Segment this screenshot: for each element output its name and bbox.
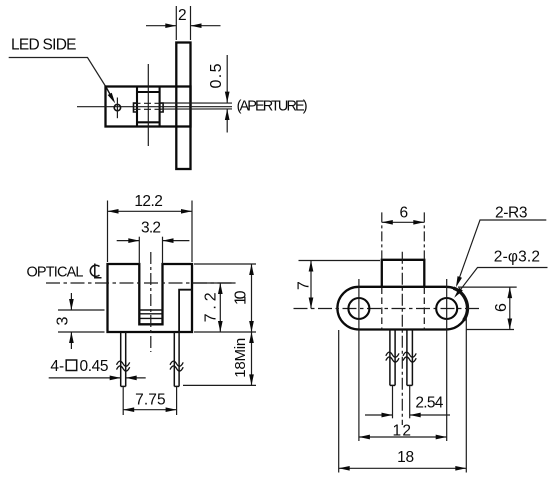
aperture side bracket left [134,103,138,112]
dimension 10 line [251,264,253,332]
svg-text:(APERTURE): (APERTURE) [237,99,308,115]
slot centerline [150,252,152,352]
svg-text:2-R3: 2-R3 [495,205,528,222]
dimension 18Min line [251,332,253,385]
6-dim extension lines above tower [382,212,425,259]
centre-line symbol [90,264,101,278]
base top/bottom extension right [458,287,517,329]
leader arrow into body [106,87,117,105]
lead centerlines below tips right view [393,385,410,418]
break mark right lead [403,352,416,362]
dimension 7 line [310,261,312,309]
dimension 0.5 line lower [226,109,228,133]
body top/bottom extension right [194,264,256,332]
dimension 7.2 extension line [192,282,236,284]
svg-text:10: 10 [232,290,249,305]
LED circle centerline [116,98,118,119]
hole centerline horizontal [294,308,481,310]
mounting tab flange [176,43,190,170]
svg-text:0.5: 0.5 [208,63,225,88]
right view left lead [390,330,395,386]
svg-text:0.45: 0.45 [80,358,109,375]
tower top extension left [299,260,381,262]
dimension 12.2 extension lines [108,201,193,263]
svg-text:OPTICAL: OPTICAL [27,265,84,281]
dimension 3.2 line [117,240,190,242]
stadium base outline [337,287,467,330]
leader line LED SIDE [9,58,106,88]
svg-text:6: 6 [399,204,408,221]
svg-text:12: 12 [393,423,412,440]
svg-text:4-: 4- [50,358,64,375]
18-dim extension lines [339,318,467,473]
horizontal centerline side view [77,106,232,108]
right lead [174,332,179,386]
dimension 7.75 line [123,409,176,411]
svg-text:3.2: 3.2 [141,219,161,236]
0.45 leader line with arrows [49,377,121,379]
dimension 7.2 line [219,283,221,332]
dimension 12 line [359,436,447,438]
dimension 6 top line [382,221,425,223]
svg-text:2.54: 2.54 [415,395,443,412]
hole vertical centerlines [359,279,447,441]
inner step notch [179,290,192,332]
lead centerlines below tips [123,386,176,415]
svg-text:12.2: 12.2 [134,193,163,210]
dimension 18 line [339,467,467,469]
svg-text:7: 7 [296,281,313,290]
aperture side bracket right [160,103,164,112]
central vertical centerline [401,252,403,425]
svg-text:7.2: 7.2 [203,292,220,322]
svg-text:6: 6 [493,303,510,312]
dimension 6 right line [509,287,511,329]
lead tip extension right [183,384,256,386]
side view body outline [106,87,191,127]
dimension 3 extension lines [58,310,105,332]
LED circle [114,104,120,110]
left mounting hole [348,298,369,319]
optical centerline [46,282,236,284]
left lead [121,332,126,386]
2-R3 leader [457,220,547,285]
front body outline with slot [108,264,193,332]
2-phi3.2 leader [456,268,548,296]
svg-text:2: 2 [178,7,187,24]
aperture hidden dashes [134,103,163,109]
svg-text:7.75: 7.75 [135,391,166,408]
thick arc emphasis right cap [454,288,468,320]
dimension 2 line [146,25,221,27]
dimension 2.54 line [365,414,450,416]
aperture edge lines extended right [160,103,232,109]
dimension 3 line [70,293,72,349]
svg-text:3: 3 [55,316,72,325]
dimension 0.5 line upper [226,55,228,103]
svg-text:2-φ3.2: 2-φ3.2 [494,248,540,265]
dimension 2 extension lines [176,6,190,40]
vertical centerline of sleeve [147,64,149,146]
side view sleeve (slot section) [137,87,160,127]
aperture lines in slot [139,310,162,318]
svg-text:LED SIDE: LED SIDE [11,37,77,54]
tower outline [382,260,425,287]
svg-text:18: 18 [397,449,414,466]
right mounting hole [436,298,457,319]
dimension 12.2 line [108,210,193,212]
lead break mark right [170,361,183,371]
svg-text:18Min: 18Min [232,338,249,378]
right view right lead [407,330,413,386]
break mark left lead [386,352,399,362]
slot wall extension lines [139,237,162,264]
lead break mark left [117,361,130,371]
tower hidden edges through base [382,288,425,330]
